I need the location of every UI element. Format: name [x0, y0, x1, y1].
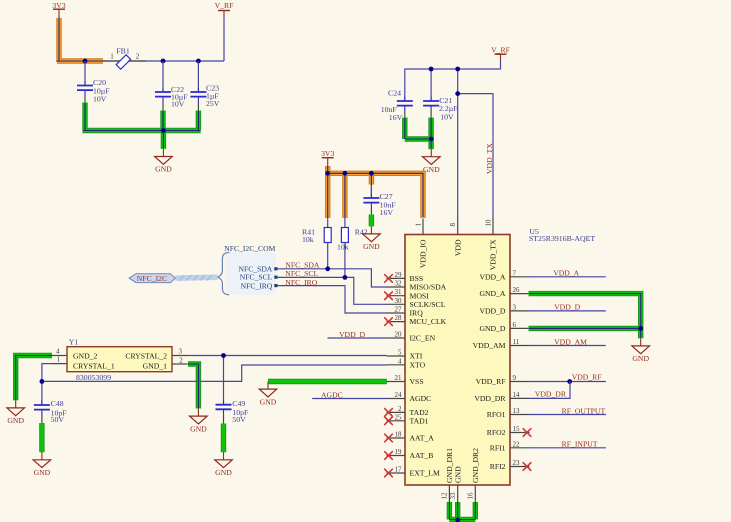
svg-text:RFO1: RFO1	[487, 410, 506, 419]
wire C22 lead	[162, 61, 164, 92]
pin 5 XTI	[387, 355, 406, 357]
harness cable	[175, 275, 217, 281]
svg-text:27: 27	[395, 306, 403, 314]
wire VDD_A	[530, 276, 606, 278]
wire thick green GND_A / GND_D	[529, 294, 641, 339]
wire RF_INPUT	[530, 447, 606, 449]
wire VDD_D to I2C_EN	[328, 337, 387, 339]
pin 14 VDD_DR	[510, 397, 530, 399]
pin 15 RFO2	[510, 432, 530, 434]
svg-text:C49: C49	[232, 399, 245, 408]
pin 6 GND_D	[510, 327, 530, 329]
ground	[259, 382, 277, 407]
harness block NFC_I2C_COM	[226, 252, 276, 294]
svg-text:20: 20	[395, 331, 403, 339]
pin 30 SCLK/SCL	[387, 303, 406, 305]
pin 3 VDD_D	[510, 310, 530, 312]
svg-text:CRYSTAL_2: CRYSTAL_2	[125, 351, 167, 360]
svg-text:10V: 10V	[171, 99, 185, 108]
pin 29 BSS	[387, 277, 406, 279]
svg-text:50V: 50V	[51, 415, 65, 424]
wire VDD_AM	[530, 345, 606, 347]
wire C20 bottom lead	[84, 95, 86, 103]
svg-text:RFI1: RFI1	[490, 443, 506, 452]
svg-text:13: 13	[513, 407, 521, 415]
wire thick green bottom gnd	[449, 502, 475, 522]
svg-text:1: 1	[57, 356, 61, 364]
svg-text:NFC_SCL: NFC_SCL	[285, 269, 318, 278]
pin 23 RFI2	[510, 466, 530, 468]
wire thick orange rail	[328, 166, 423, 218]
wire NFC_SDA	[277, 269, 387, 287]
svg-text:C48: C48	[51, 399, 64, 408]
wire C23 lead	[197, 61, 199, 92]
svg-text:GND: GND	[453, 466, 462, 483]
svg-text:23: 23	[513, 459, 521, 467]
harness brace	[217, 252, 229, 294]
wire NFC_IRQ	[277, 286, 387, 313]
capacitor C48	[34, 401, 50, 415]
pin 1 VDD_IO	[422, 219, 424, 235]
junction VDD_RF/VDD_DR	[567, 379, 572, 384]
wire thick green C27 ground	[369, 215, 374, 227]
svg-text:EXT_LM: EXT_LM	[410, 469, 440, 478]
svg-text:25: 25	[395, 413, 403, 421]
pin 7 VDD_A	[510, 276, 530, 278]
svg-text:3V3: 3V3	[52, 1, 65, 10]
svg-text:VSS: VSS	[410, 377, 424, 386]
svg-text:VDD_D: VDD_D	[479, 307, 505, 316]
junction rail at R41	[325, 171, 330, 176]
svg-text:I2C_EN: I2C_EN	[410, 334, 436, 343]
svg-text:22: 22	[513, 440, 521, 448]
svg-text:XTI: XTI	[410, 352, 423, 361]
svg-text:5: 5	[398, 349, 402, 357]
junction at green ground	[429, 137, 434, 142]
svg-text:VDD_IO: VDD_IO	[419, 239, 428, 268]
svg-text:830053099: 830053099	[76, 373, 111, 382]
svg-text:9: 9	[513, 374, 517, 382]
ground	[423, 149, 441, 174]
svg-text:CRYSTAL_1: CRYSTAL_1	[73, 362, 115, 371]
svg-text:TAD1: TAD1	[410, 416, 429, 425]
svg-text:RF_INPUT: RF_INPUT	[562, 440, 598, 449]
junction GND_A/GND_D	[638, 326, 643, 331]
svg-text:AAT_A: AAT_A	[410, 434, 435, 443]
svg-text:AGDC: AGDC	[410, 394, 432, 403]
wire thick orange 3V3	[57, 18, 103, 61]
svg-text:10k: 10k	[302, 235, 314, 244]
junction at C23	[196, 59, 201, 64]
wire thick green ground bus top-left	[83, 103, 201, 149]
svg-text:RF_OUTPUT: RF_OUTPUT	[562, 406, 606, 415]
svg-text:12: 12	[441, 492, 449, 500]
pin 21 VSS	[387, 381, 406, 383]
svg-text:31: 31	[395, 288, 403, 296]
ground	[190, 409, 208, 434]
svg-text:GND_1: GND_1	[143, 362, 167, 371]
svg-text:4: 4	[56, 348, 60, 356]
svg-text:MCU_CLK: MCU_CLK	[410, 317, 447, 326]
capacitor C49	[216, 400, 232, 414]
wire R42 bottom	[344, 243, 346, 278]
svg-text:ST25R3916B-AQET: ST25R3916B-AQET	[529, 234, 596, 243]
svg-text:VDD_RF: VDD_RF	[476, 377, 506, 386]
wire VDD_D	[530, 310, 606, 312]
svg-text:MISO/SDA: MISO/SDA	[410, 283, 447, 292]
power port V_RF	[218, 10, 230, 16]
junction rail at C27	[369, 171, 374, 176]
svg-text:19: 19	[395, 448, 403, 456]
svg-text:NFC_I2C_COM: NFC_I2C_COM	[224, 244, 275, 253]
wire RF_OUTPUT	[530, 414, 606, 416]
svg-text:24: 24	[395, 391, 403, 399]
capacitor C21	[423, 97, 439, 111]
svg-text:3V3: 3V3	[321, 149, 334, 158]
ferrite bead FB1	[103, 60, 146, 62]
svg-text:2: 2	[136, 53, 140, 61]
wire R41 bottom	[327, 243, 329, 269]
svg-text:16V: 16V	[380, 208, 394, 217]
pin 25 TAD1	[387, 420, 406, 422]
svg-text:10V: 10V	[93, 95, 107, 104]
junction at VDD_TX branch	[455, 91, 460, 96]
pin 9 VDD_RF	[510, 381, 530, 383]
capacitor C23	[190, 88, 206, 102]
wire crystal pin1 / C48 / XTO	[42, 364, 387, 405]
junction at 3V3/C20	[83, 59, 88, 64]
ground	[7, 400, 25, 425]
wire C22 bottom lead	[162, 102, 164, 112]
svg-text:VDD_AM: VDD_AM	[473, 341, 506, 350]
pin 20 I2C_EN	[387, 337, 406, 339]
junction at ground bus	[161, 128, 166, 133]
svg-text:25V: 25V	[206, 99, 220, 108]
ground	[215, 452, 233, 477]
svg-text:28: 28	[395, 314, 403, 322]
svg-text:NFC_I2C: NFC_I2C	[137, 274, 167, 283]
svg-text:V_RF: V_RF	[491, 45, 510, 54]
power port V_RF	[495, 54, 507, 60]
svg-text:SCLK/SCL: SCLK/SCL	[410, 300, 446, 309]
crystal Y1 body	[67, 347, 172, 372]
junction R42/SCL	[343, 275, 348, 280]
harness connector NFC_I2C	[129, 274, 175, 283]
svg-text:10: 10	[485, 219, 493, 227]
pin 31 MOSI	[387, 295, 406, 297]
pin 4 GND_2	[52, 355, 67, 357]
svg-text:10k: 10k	[337, 243, 349, 252]
svg-text:2: 2	[398, 405, 402, 413]
svg-text:NFC_IRQ: NFC_IRQ	[241, 281, 273, 290]
wire 3V3 vertical + horizontal to V_RF	[56, 16, 224, 62]
junction C48	[40, 379, 45, 384]
svg-text:NFC_IRQ: NFC_IRQ	[285, 278, 317, 287]
junction at VDD column	[455, 67, 460, 72]
svg-text:1: 1	[110, 53, 114, 61]
pin 33 GND	[457, 485, 459, 502]
svg-text:30: 30	[395, 297, 403, 305]
svg-text:8: 8	[449, 223, 457, 227]
svg-text:GND_DR2: GND_DR2	[471, 448, 480, 483]
svg-text:VDD_RF: VDD_RF	[572, 373, 602, 382]
svg-text:RFO2: RFO2	[487, 428, 506, 437]
junction bottom gnd	[455, 518, 460, 522]
pin 10 VDD_TX	[492, 218, 494, 235]
svg-text:C24: C24	[388, 89, 401, 98]
ground	[155, 149, 173, 174]
svg-text:11: 11	[513, 338, 520, 346]
svg-text:VDD: VDD	[453, 239, 462, 256]
wire C27 bottom lead	[370, 208, 372, 216]
svg-text:GND_2: GND_2	[73, 351, 97, 360]
svg-text:50V: 50V	[232, 415, 246, 424]
ground	[33, 452, 51, 477]
junction at C22	[161, 59, 166, 64]
svg-text:7: 7	[513, 269, 517, 277]
svg-text:VDD_A: VDD_A	[553, 269, 579, 278]
svg-text:32: 32	[395, 280, 403, 288]
wire crystal pin3 to XTI	[189, 356, 386, 405]
power port 3V3	[53, 9, 65, 15]
pin 3 CRYSTAL_2	[172, 355, 189, 357]
wire thick green C24/C21 ground	[405, 118, 432, 150]
junction at C21 top	[429, 67, 434, 72]
svg-text:AAT_B: AAT_B	[410, 451, 434, 460]
capacitor C27	[370, 185, 372, 198]
resistor R41	[324, 228, 331, 243]
svg-text:VDD_D: VDD_D	[554, 303, 580, 312]
pin 22 RFI1	[510, 447, 530, 449]
wire thick green crystal pin2 to GND	[188, 364, 198, 409]
svg-text:1: 1	[415, 223, 423, 227]
svg-text:17: 17	[395, 466, 403, 474]
pin 2 TAD2	[387, 411, 406, 413]
svg-text:16: 16	[466, 492, 474, 500]
svg-text:18: 18	[395, 431, 403, 439]
svg-text:4: 4	[398, 357, 402, 365]
svg-text:29: 29	[395, 271, 403, 279]
wire VDD_RF	[530, 381, 606, 383]
wire NFC_SCL	[277, 277, 387, 304]
svg-text:C20: C20	[93, 78, 106, 87]
svg-text:GND_D: GND_D	[479, 324, 505, 333]
pin 13 RFO1	[510, 414, 530, 416]
pin 1 CRYSTAL_1	[50, 363, 67, 365]
IC U5 body	[405, 235, 510, 486]
svg-text:Y1: Y1	[69, 338, 79, 347]
capacitor C24	[397, 97, 413, 111]
ground	[363, 226, 381, 251]
pin 26 GND_A	[510, 293, 530, 295]
svg-text:VDD_DR: VDD_DR	[535, 390, 567, 399]
svg-text:10V: 10V	[440, 112, 454, 121]
pin 11 VDD_AM	[510, 345, 530, 347]
resistor R42	[341, 228, 348, 243]
wire AGDC	[312, 398, 386, 400]
pin 32 MISO/SDA	[387, 286, 406, 288]
pin 12 GND_DR1	[448, 485, 450, 502]
pin 8 VDD	[457, 218, 459, 235]
svg-text:VDD_DR: VDD_DR	[474, 394, 506, 403]
wire thick green C48 ground	[39, 423, 44, 452]
svg-text:NFC_SDA: NFC_SDA	[285, 260, 320, 269]
svg-text:3: 3	[513, 303, 517, 311]
ground	[632, 338, 650, 363]
svg-text:FB1: FB1	[116, 47, 130, 56]
wire thick green C49 ground	[221, 424, 226, 453]
svg-text:14: 14	[513, 391, 521, 399]
svg-text:VDD_A: VDD_A	[479, 272, 505, 281]
capacitor C20	[77, 81, 93, 95]
svg-text:V_RF: V_RF	[215, 1, 234, 10]
wire V_RF to caps	[405, 61, 501, 219]
svg-text:VDD_D: VDD_D	[339, 330, 365, 339]
svg-text:26: 26	[513, 286, 521, 294]
svg-text:XTO: XTO	[410, 360, 426, 369]
pin 19 AAT_B	[387, 455, 406, 457]
svg-text:3: 3	[179, 348, 183, 356]
pin 18 AAT_A	[387, 437, 406, 439]
pin 27 IRQ	[387, 312, 406, 314]
svg-text:21: 21	[395, 374, 403, 382]
svg-text:VDD_AM: VDD_AM	[554, 337, 587, 346]
wire thick green VSS to GND	[268, 379, 387, 384]
wire under rail	[328, 164, 423, 228]
svg-text:2: 2	[179, 356, 183, 364]
svg-text:16V: 16V	[389, 113, 403, 122]
junction R41/SDA	[325, 266, 330, 271]
junction C49	[221, 353, 226, 358]
svg-text:15: 15	[513, 425, 521, 433]
pin 4 XTO	[387, 364, 406, 366]
pin 28 MCU_CLK	[387, 321, 406, 323]
pin 24 AGDC	[387, 398, 406, 400]
wire VDD_DR	[530, 382, 571, 399]
svg-text:GND_A: GND_A	[479, 289, 505, 298]
junction rail at R42	[343, 171, 348, 176]
svg-text:6: 6	[513, 321, 517, 329]
pin 16 GND_DR2	[474, 485, 476, 502]
wire C20 lead	[84, 61, 86, 85]
svg-text:RFI2: RFI2	[490, 462, 506, 471]
svg-text:R42: R42	[355, 228, 368, 237]
power port 3V3	[322, 158, 334, 164]
svg-text:33: 33	[449, 492, 457, 500]
svg-text:VDD_TX: VDD_TX	[489, 239, 498, 270]
wire thick green crystal pin4 to GND	[16, 356, 52, 401]
pin 2 GND_1	[172, 363, 188, 365]
svg-text:VDD_TX: VDD_TX	[485, 143, 494, 174]
wire cap bottom leads	[405, 111, 431, 119]
wire C49 bottom lead	[223, 414, 225, 424]
wire C48 bottom lead	[41, 415, 43, 424]
wire C23 bottom lead	[197, 102, 199, 112]
capacitor C22	[155, 88, 171, 102]
svg-text:AGDC: AGDC	[321, 391, 343, 400]
pin 17 EXT_LM	[387, 472, 406, 474]
